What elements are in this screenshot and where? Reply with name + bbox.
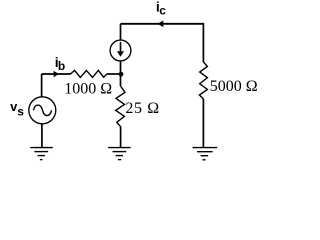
wire below 25 ohm resistor [120,127,122,147]
svg-text:25 Ω: 25 Ω [125,100,159,117]
arrowhead i_c pointing left on top wire [157,21,163,28]
wire stub below current source to node [120,62,122,76]
ground right [193,148,218,160]
wire right vertical upper segment [202,23,204,62]
svg-text:c: c [159,3,166,17]
wire left corner vertical above voltage source [41,74,43,97]
node junction dot [119,72,124,77]
wire from resistor to node [107,73,121,75]
sine wave inside voltage source [33,105,51,116]
wire right vertical lower segment [202,99,204,148]
wire stub above current source [120,24,122,41]
resistor 5000 ohm zigzag [199,62,207,99]
svg-text:s: s [17,104,24,118]
wire top horizontal from current source to right branch [121,23,204,25]
wire from node down to 25 ohm resistor [120,74,122,86]
ground left [30,148,53,160]
arrowhead i_b pointing right [54,71,59,77]
svg-text:5000 Ω: 5000 Ω [210,78,258,95]
wire stub below voltage source [41,124,43,148]
wire horizontal from corner to resistor [42,73,71,75]
svg-text:b: b [58,59,65,73]
current source circle [110,40,131,61]
resistor 25 ohm zigzag [116,86,125,127]
voltage source circle [29,97,56,124]
ground middle [108,148,131,160]
current source arrow down [120,42,122,52]
resistor 1000 ohm zigzag [71,70,107,77]
svg-text:1000 Ω: 1000 Ω [64,81,112,98]
